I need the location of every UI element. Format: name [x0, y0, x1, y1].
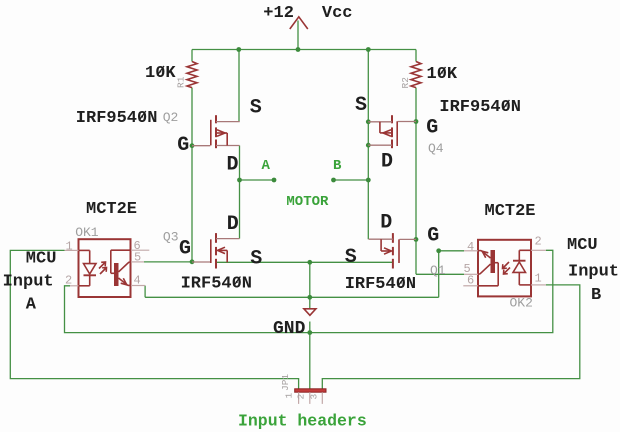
svg-text:Vcc: Vcc [322, 4, 353, 23]
svg-text:2: 2 [296, 394, 307, 400]
svg-text:S: S [250, 248, 262, 271]
svg-text:MCU: MCU [567, 236, 598, 255]
svg-text:Q3: Q3 [163, 230, 179, 245]
svg-text:GND: GND [273, 319, 306, 339]
svg-text:OK2: OK2 [510, 296, 533, 311]
svg-text:2: 2 [65, 274, 72, 288]
svg-text:A: A [262, 158, 271, 174]
svg-text:IRF540N: IRF540N [181, 275, 252, 294]
svg-text:Input headers: Input headers [238, 412, 367, 431]
svg-text:R1: R1 [176, 76, 187, 88]
svg-text:2: 2 [535, 235, 542, 249]
svg-text:1: 1 [535, 272, 542, 286]
svg-text:B: B [591, 286, 601, 305]
svg-text:D: D [381, 151, 393, 174]
svg-text:3: 3 [309, 394, 320, 400]
svg-text:MCT2E: MCT2E [485, 202, 536, 221]
svg-text:JP1: JP1 [280, 374, 291, 391]
svg-text:R2: R2 [400, 77, 411, 89]
svg-text:G: G [177, 134, 189, 157]
svg-text:IRF540N: IRF540N [345, 275, 416, 294]
svg-text:S: S [355, 94, 367, 117]
svg-text:MCT2E: MCT2E [86, 200, 137, 219]
svg-text:Q1: Q1 [430, 263, 446, 278]
svg-text:Input: Input [3, 273, 54, 292]
svg-text:OK1: OK1 [75, 225, 99, 240]
svg-text:D: D [380, 212, 392, 235]
svg-text:MCU: MCU [26, 250, 57, 269]
svg-text:6: 6 [467, 274, 474, 288]
svg-text:4: 4 [134, 274, 141, 288]
svg-text:Q4: Q4 [428, 141, 444, 156]
svg-text:G: G [427, 225, 439, 248]
svg-text:S: S [250, 97, 262, 120]
svg-text:Q2: Q2 [163, 110, 179, 125]
svg-text:B: B [333, 158, 342, 174]
svg-text:G: G [179, 238, 191, 261]
svg-text:D: D [227, 213, 239, 236]
svg-text:1: 1 [284, 393, 295, 399]
svg-text:MOTOR: MOTOR [286, 194, 329, 210]
svg-text:D: D [227, 154, 239, 177]
svg-text:+12: +12 [263, 4, 294, 23]
svg-text:4: 4 [467, 240, 474, 254]
svg-text:G: G [426, 117, 438, 140]
svg-text:A: A [26, 296, 37, 315]
svg-text:S: S [345, 246, 357, 269]
svg-text:Input: Input [568, 263, 619, 282]
svg-text:5: 5 [134, 251, 141, 265]
svg-text:10K: 10K [145, 64, 176, 83]
svg-text:10K: 10K [427, 65, 458, 84]
svg-text:1: 1 [66, 240, 73, 254]
